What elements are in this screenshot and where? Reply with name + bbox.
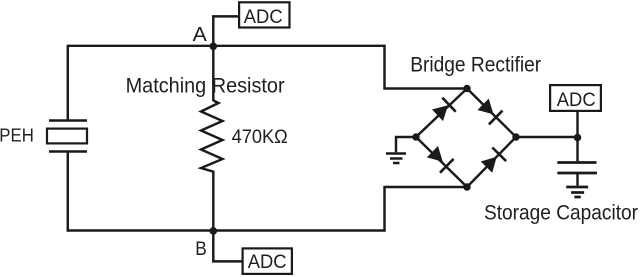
svg-text:A: A xyxy=(193,23,207,46)
svg-text:Bridge Rectifier: Bridge Rectifier xyxy=(410,53,541,76)
diode D3 bottom-left edge (left node to bottom node) xyxy=(416,137,467,187)
svg-text:ADC: ADC xyxy=(248,251,287,273)
PEH piezo element: crystal rectangle xyxy=(47,129,87,144)
wire: bottom rail from left corner through node B to right corner xyxy=(67,229,386,231)
svg-text:470KΩ: 470KΩ xyxy=(232,127,288,148)
node A junction dot xyxy=(210,43,218,51)
svg-text:ADC: ADC xyxy=(244,6,283,28)
ground symbol below storage capacitor xyxy=(566,187,588,197)
storage capacitor C: bottom plate xyxy=(557,172,597,175)
wire: node A down to resistor xyxy=(212,46,214,101)
bridge right node dot xyxy=(512,133,519,140)
wire: capacitor bottom plate to ground xyxy=(576,173,578,186)
wire: top rail from left corner through node A to right corner xyxy=(67,45,386,47)
bridge bottom node dot xyxy=(463,183,470,190)
diode D1 top-left edge (left node to top node) xyxy=(416,89,467,138)
PEH piezo element: top plate xyxy=(49,119,87,121)
ADC box top xyxy=(239,2,289,27)
svg-text:ADC: ADC xyxy=(557,89,596,111)
ADC box right xyxy=(550,85,601,111)
storage capacitor C: top plate xyxy=(557,161,596,164)
bridge top node dot xyxy=(463,85,470,92)
ground symbol at bridge left xyxy=(386,154,406,164)
wire: node A up and right to top ADC xyxy=(213,16,238,45)
node B junction dot xyxy=(210,227,218,235)
wire: bottom-right corner up to bridge bottom node xyxy=(385,187,468,232)
wire: resistor to node B xyxy=(212,172,214,232)
diode D4 bottom-right edge (bottom node to right node) xyxy=(467,137,516,187)
ADC box bottom xyxy=(243,248,292,274)
wire: bridge left node to ground xyxy=(396,137,416,152)
svg-text:B: B xyxy=(195,238,207,260)
output junction dot xyxy=(574,134,582,142)
wire: junction up to right ADC xyxy=(576,112,578,137)
svg-text:Storage Capacitor: Storage Capacitor xyxy=(484,202,638,225)
PEH piezo element: bottom plate xyxy=(49,150,87,152)
svg-text:Matching Resistor: Matching Resistor xyxy=(126,75,285,98)
wire: top-right corner down to bridge top node xyxy=(385,45,468,89)
wire: node B down and right to bottom ADC xyxy=(213,231,241,262)
diode D2 top-right edge (top node to right node) xyxy=(467,89,516,138)
wire: bridge right node to output junction xyxy=(516,136,578,138)
wire: left vertical lead (top rail to PEH top plate) xyxy=(67,46,69,121)
resistor R 470KΩ zigzag xyxy=(201,101,223,173)
bridge left node dot xyxy=(412,133,419,140)
svg-text:PEH: PEH xyxy=(0,126,34,146)
wire: junction down to storage capacitor xyxy=(576,137,578,161)
wire: left vertical lead (PEH bottom plate to bottom rail) xyxy=(67,152,69,232)
